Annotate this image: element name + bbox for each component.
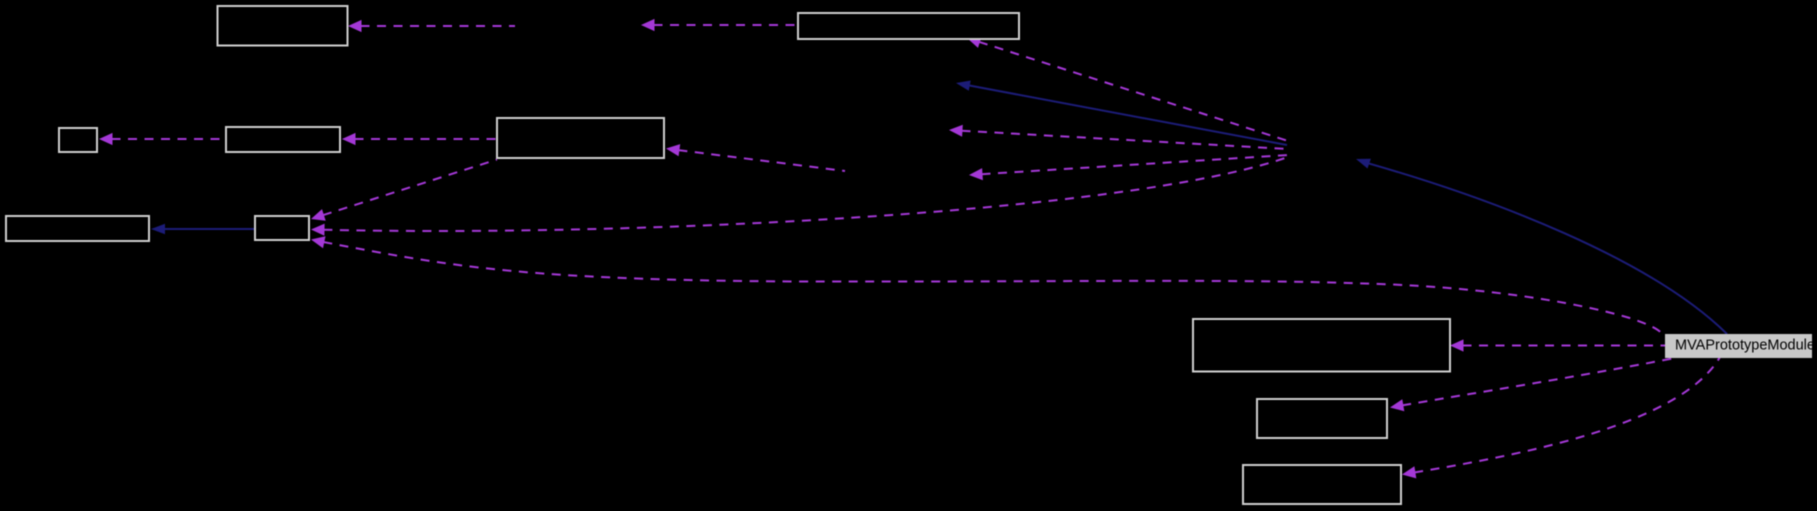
svg-text:MVAPrototypeModule: MVAPrototypeModule [1675, 338, 1815, 354]
